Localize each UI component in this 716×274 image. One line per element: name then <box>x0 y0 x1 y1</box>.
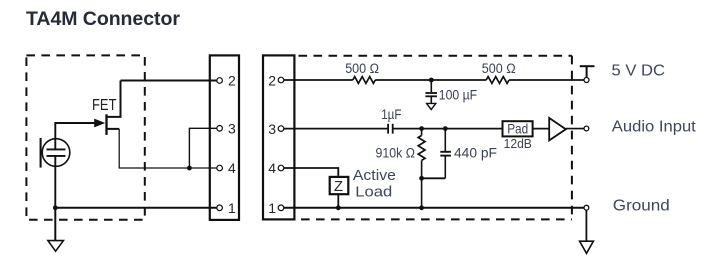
pin 4 (J1) <box>217 165 223 171</box>
wire <box>509 79 584 81</box>
wire pin4 to active load <box>284 168 339 177</box>
wire source down to pin 4 <box>119 129 217 168</box>
node ground <box>584 205 589 210</box>
svg-text:910k Ω: 910k Ω <box>376 145 416 160</box>
svg-text:Load: Load <box>355 183 392 200</box>
svg-text:4: 4 <box>268 160 276 176</box>
wire amp to output <box>566 128 584 130</box>
svg-text:500 Ω: 500 Ω <box>482 61 516 76</box>
resistor R2 500 ohm <box>486 77 509 84</box>
resistor R3 910k <box>418 129 425 179</box>
capacitor C1 100uF <box>425 80 437 110</box>
svg-text:1: 1 <box>228 200 236 216</box>
resistor R1 500 ohm <box>353 77 376 84</box>
svg-text:12dB: 12dB <box>504 136 532 151</box>
svg-text:TA4M Connector: TA4M Connector <box>26 8 180 30</box>
junction dot pins 3-4 <box>187 166 192 171</box>
svg-text:2: 2 <box>228 73 236 89</box>
wire active load to ground rail <box>337 194 339 208</box>
svg-text:4: 4 <box>228 160 236 176</box>
svg-text:3: 3 <box>228 121 236 137</box>
pin 1 (J1) <box>217 205 223 211</box>
right module dashed enclosure <box>299 56 572 220</box>
svg-text:Ground: Ground <box>613 198 670 215</box>
capacitor C3 440pF <box>422 129 451 179</box>
connector J2 body <box>263 55 294 219</box>
svg-text:Audio Input: Audio Input <box>612 119 697 136</box>
wire pad to amp <box>533 128 550 130</box>
microphone element MK1 <box>41 138 70 168</box>
connector J1 body <box>210 55 239 220</box>
wire mic top to gate <box>55 123 95 149</box>
active load Z1 <box>330 177 349 194</box>
attenuator Pad box <box>503 121 533 136</box>
wire mic bottom to pin 1 <box>54 156 56 208</box>
junction dot RC bottom <box>419 176 424 181</box>
left module dashed enclosure <box>26 55 144 219</box>
svg-text:2: 2 <box>268 73 276 89</box>
svg-text:100 µF: 100 µF <box>439 88 477 103</box>
junction dot 910k tap <box>419 126 424 131</box>
svg-text:3: 3 <box>268 121 276 137</box>
junction dot 440pF tap <box>443 126 448 131</box>
svg-text:Active: Active <box>353 167 396 184</box>
wire tap to pin 3 <box>189 128 216 168</box>
svg-text:FET: FET <box>92 97 117 114</box>
svg-text:500 Ω: 500 Ω <box>345 61 379 76</box>
wire RC to ground rail <box>421 178 423 208</box>
wire ground rail <box>284 207 584 209</box>
junction dot 100uF tap <box>429 78 434 83</box>
wire <box>393 128 502 130</box>
op-amp buffer U1 <box>549 118 566 140</box>
svg-text:5 V DC: 5 V DC <box>612 63 666 80</box>
wire audio row <box>284 128 388 130</box>
junction dot mic ground <box>53 205 58 210</box>
svg-text:1µF: 1µF <box>381 107 401 122</box>
ground right <box>580 210 594 253</box>
svg-text:440 pF: 440 pF <box>454 145 497 160</box>
pin 2 (J1) <box>217 78 223 84</box>
wire 5V rail <box>284 79 353 81</box>
svg-text:Z: Z <box>334 178 343 195</box>
junction dot active load <box>336 205 341 210</box>
terminal 5V <box>580 66 595 82</box>
node audio output <box>584 126 589 131</box>
ground left <box>48 208 64 251</box>
junction dot RC ground <box>419 205 424 210</box>
svg-text:1: 1 <box>268 200 276 216</box>
pin 3 (J1) <box>217 126 223 132</box>
wire <box>375 79 486 81</box>
svg-text:Pad: Pad <box>507 121 528 137</box>
transistor FET Q1 <box>107 81 121 135</box>
capacitor C2 1uF <box>388 124 393 134</box>
wire drain to pin 2 <box>121 80 217 82</box>
gate arrowhead <box>94 119 105 128</box>
